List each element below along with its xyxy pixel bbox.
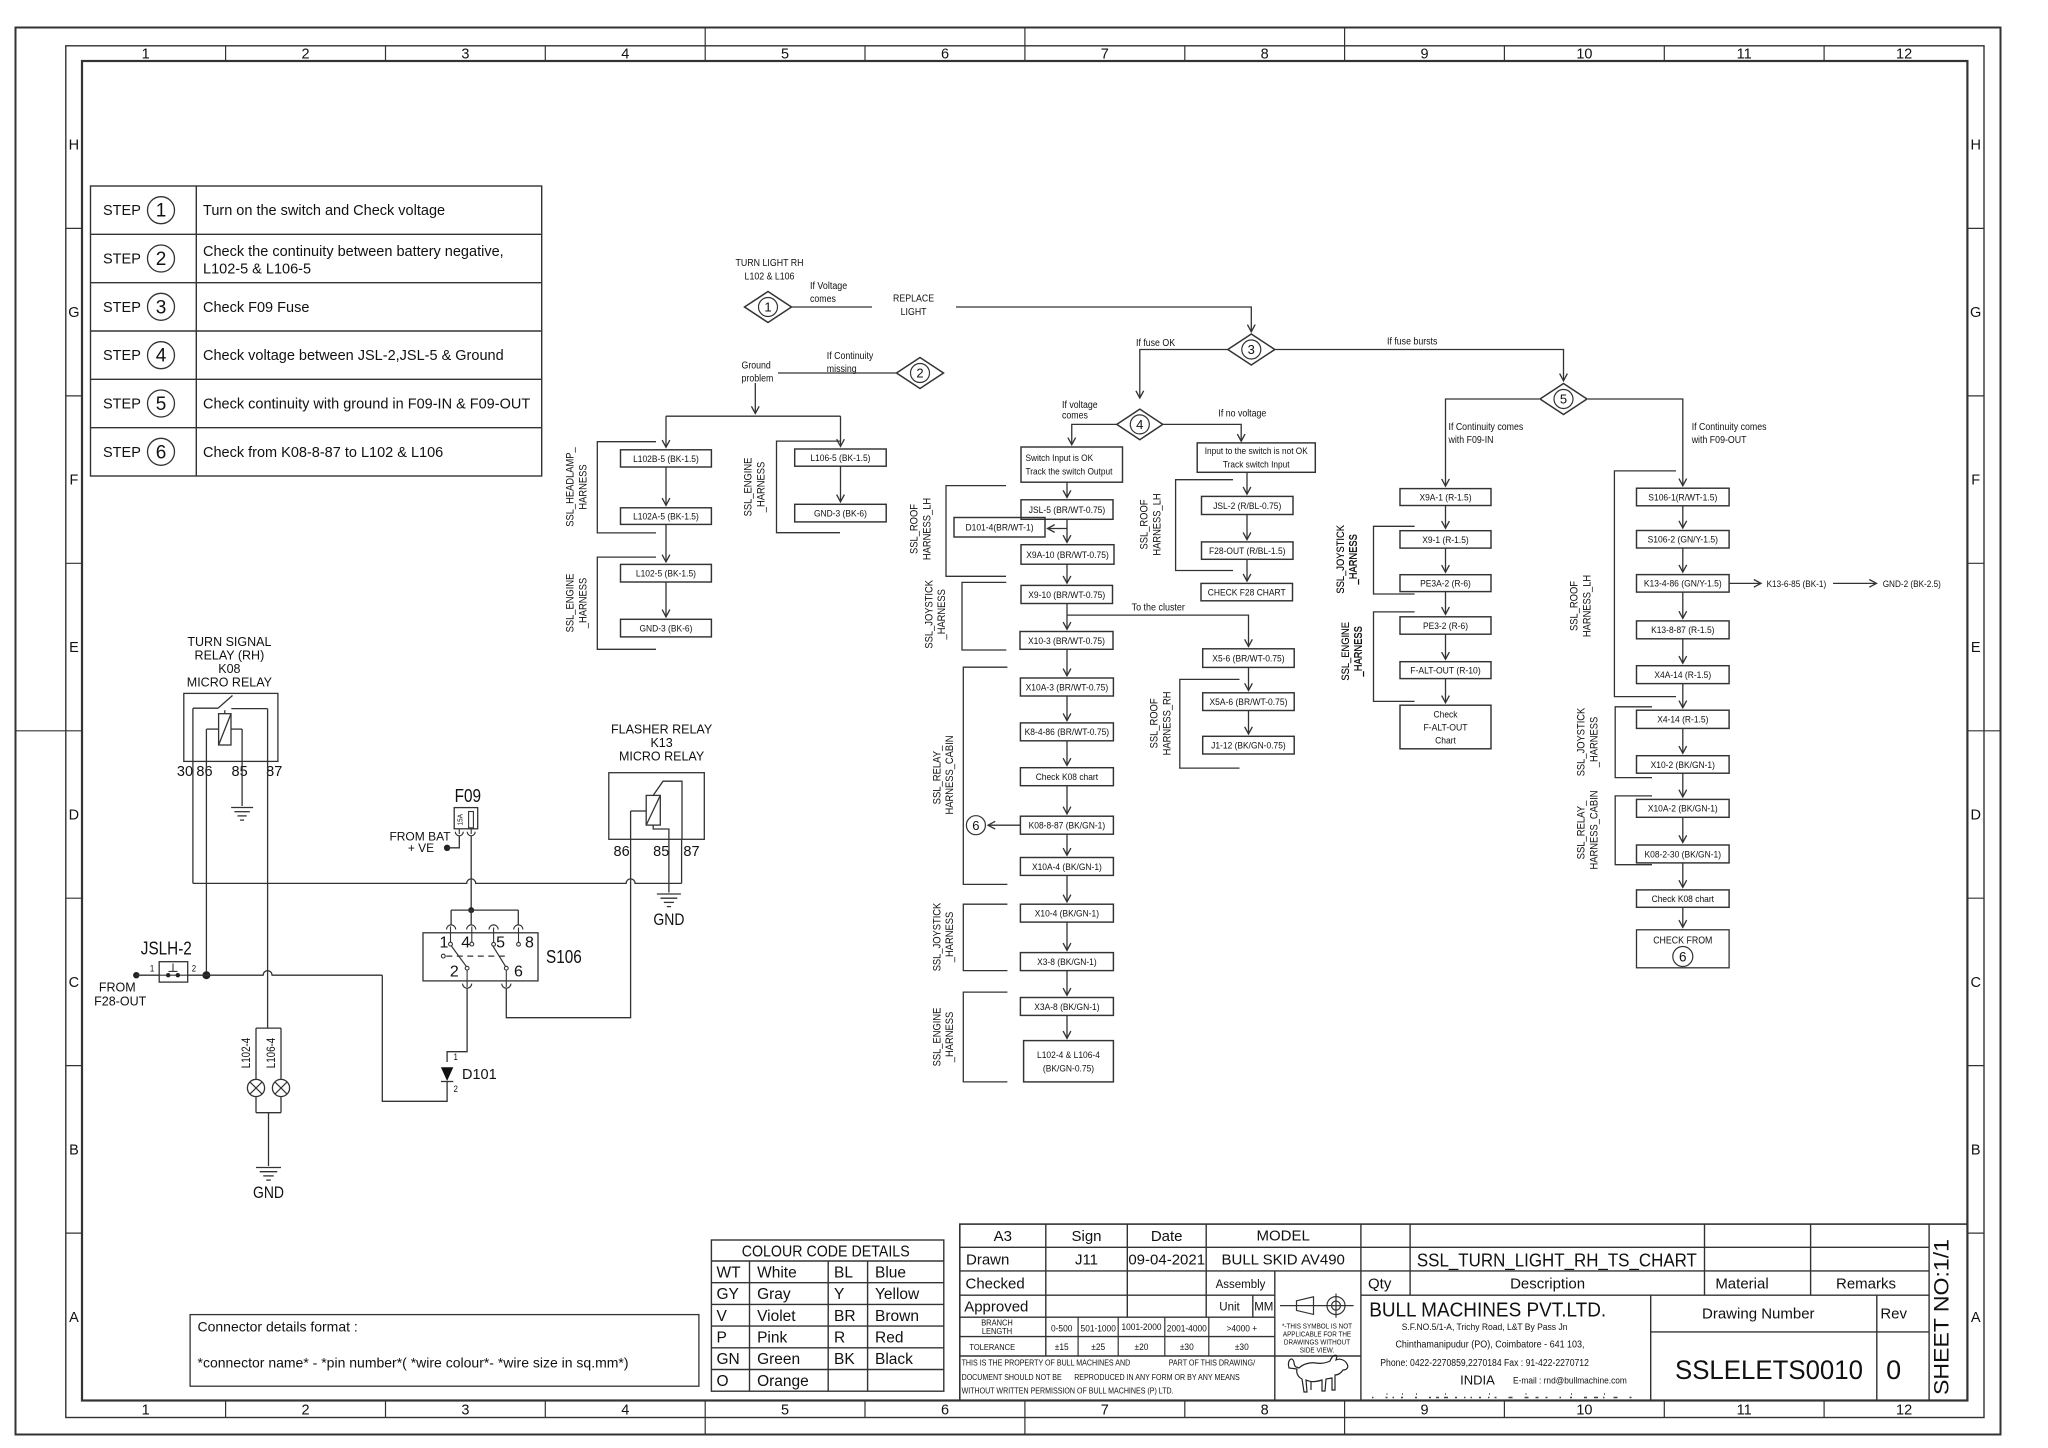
lamp L102-4 [247, 1079, 264, 1096]
node: TURN LIGHT RH label [736, 258, 804, 283]
svg-text:Check: Check [1434, 709, 1458, 720]
svg-text:D: D [69, 808, 79, 824]
flow box Switch Input is OK [1021, 447, 1123, 482]
relay K08 [184, 693, 278, 761]
wire: S106 pin2 to D101 [447, 988, 467, 1062]
svg-text:6: 6 [941, 1402, 949, 1418]
svg-text:If voltage: If voltage [1062, 400, 1098, 411]
property note text [962, 1359, 1256, 1396]
svg-text:2: 2 [156, 249, 167, 270]
svg-text:SSL_ROOF: SSL_ROOF [909, 504, 921, 554]
svg-text:Violet: Violet [757, 1308, 796, 1325]
border grid row letters and ticks [16, 138, 2001, 1326]
svg-text:X10A-4 (BK/GN-1): X10A-4 (BK/GN-1) [1032, 862, 1102, 873]
svg-text:STEP: STEP [103, 445, 141, 461]
svg-text:6: 6 [514, 964, 523, 981]
flow box L102B-5 [621, 450, 712, 467]
wire: diamond5 to S106-1 [1588, 399, 1683, 486]
svg-text:_HARNESS: _HARNESS [1588, 717, 1600, 768]
svg-text:87: 87 [683, 844, 699, 860]
svg-text:0: 0 [1886, 1355, 1901, 1385]
wire: To the cluster rail [1067, 615, 1249, 646]
svg-text:CHECK FROM: CHECK FROM [1653, 936, 1712, 947]
svg-text:4: 4 [621, 1402, 629, 1418]
svg-text:LENGTH: LENGTH [982, 1326, 1012, 1336]
S106 feed node [468, 907, 474, 913]
flow box CHECK FROM 6 [1637, 930, 1730, 968]
svg-text:A: A [1971, 1310, 1981, 1326]
svg-text:3: 3 [461, 1402, 469, 1418]
svg-text:TOLERANCE: TOLERANCE [969, 1342, 1015, 1352]
label: If Voltage comes [810, 281, 848, 305]
svg-text:2: 2 [450, 964, 459, 981]
svg-text:Chart: Chart [1435, 735, 1456, 746]
svg-text:SSL_ENGINE: SSL_ENGINE [565, 574, 577, 633]
wire: K08 pin85 to ground [241, 729, 243, 806]
S106 pin hooks top [447, 925, 523, 943]
svg-text:PE3-2 (R-6): PE3-2 (R-6) [1423, 621, 1468, 632]
svg-text:1: 1 [142, 1402, 150, 1418]
wire: K13-6-85 to GND-2 [1833, 582, 1877, 584]
svg-text:X10-3 (BR/WT-0.75): X10-3 (BR/WT-0.75) [1028, 636, 1105, 647]
lamp loop wires [256, 1028, 281, 1113]
svg-text:J1-12 (BK/GN-0.75): J1-12 (BK/GN-0.75) [1211, 741, 1286, 752]
wire: ground problem to diamond2 [778, 372, 896, 374]
svg-text:C: C [1970, 975, 1980, 991]
flow box L102-4 and L106-4 [1024, 1041, 1114, 1082]
svg-text:HARNESS_LH: HARNESS_LH [921, 498, 933, 560]
svg-text:Description: Description [1510, 1276, 1585, 1293]
wire: column B chain arrows [1682, 506, 1684, 928]
drawing number header [1702, 1305, 1908, 1322]
flow box Check K08 chart [1020, 768, 1113, 786]
svg-text:R: R [834, 1329, 845, 1346]
svg-text:JSL-2 (R/BL-0.75): JSL-2 (R/BL-0.75) [1213, 501, 1281, 512]
svg-text:X9-1 (R-1.5): X9-1 (R-1.5) [1422, 535, 1469, 546]
svg-text:SSL_JOYSTICK: SSL_JOYSTICK [1576, 707, 1588, 776]
svg-text:BULL MACHINES PVT.LTD.: BULL MACHINES PVT.LTD. [1369, 1300, 1606, 1322]
wire: S106 feed rail to pins 1 4 8 [451, 910, 518, 925]
wire: diamond1 to REPLACE LIGHT [792, 306, 873, 308]
lamp L106-4 [272, 1079, 289, 1096]
svg-text:F-ALT-OUT: F-ALT-OUT [1423, 722, 1467, 733]
svg-text:E: E [69, 640, 79, 656]
svg-text:FROM: FROM [99, 981, 136, 995]
svg-text:HARNESS_RH: HARNESS_RH [1161, 691, 1173, 755]
svg-text:+ VE: + VE [408, 841, 434, 855]
flow box K08-8-87 [1020, 816, 1113, 834]
title block row2 values [966, 1252, 1345, 1269]
flow box X9-10 [1021, 585, 1113, 603]
svg-text:501-1000: 501-1000 [1081, 1323, 1116, 1334]
svg-text:L102-5 & L106-5: L102-5 & L106-5 [203, 262, 311, 278]
svg-text:12: 12 [1896, 1402, 1912, 1418]
svg-text:X10A-3 (BR/WT-0.75): X10A-3 (BR/WT-0.75) [1026, 682, 1109, 693]
svg-text:Green: Green [757, 1351, 800, 1368]
svg-text:O: O [717, 1373, 729, 1390]
wire: diamond5 to X9A-1 [1446, 399, 1540, 486]
svg-text:SSL_JOYSTICK: SSL_JOYSTICK [931, 902, 943, 971]
bull logo [1288, 1355, 1347, 1392]
svg-text:G: G [1970, 305, 1981, 321]
decision diamond 2 (continuity) [897, 358, 944, 389]
relay K08 coil [206, 710, 242, 745]
svg-text:2: 2 [302, 1402, 310, 1418]
svg-text:X10A-2 (BK/GN-1): X10A-2 (BK/GN-1) [1648, 804, 1718, 815]
svg-text:Sign: Sign [1071, 1228, 1101, 1245]
svg-text:P: P [717, 1329, 727, 1346]
flow box X3A-8 [1020, 998, 1113, 1016]
svg-text:X3-8 (BK/GN-1): X3-8 (BK/GN-1) [1037, 957, 1097, 968]
svg-text:S106-1(R/WT-1.5): S106-1(R/WT-1.5) [1648, 492, 1717, 503]
svg-text:K8-4-86 (BR/WT-0.75): K8-4-86 (BR/WT-0.75) [1025, 727, 1110, 738]
node: FROM F28-OUT dot [133, 972, 139, 978]
title block row1 labels [994, 1227, 1310, 1245]
svg-text:GN: GN [717, 1351, 740, 1368]
svg-text:STEP: STEP [103, 252, 141, 268]
wire: split rail to L102B-5 and L106-5 [666, 416, 841, 447]
svg-text:_HARNESS: _HARNESS [577, 578, 589, 629]
ground (lamps) [256, 1168, 281, 1181]
ground (K13 pin 85) [657, 894, 681, 907]
node: junction K08-86 / JSLH-2 wire [202, 971, 210, 979]
svg-text:SSL_TURN_LIGHT_RH_TS_CHART: SSL_TURN_LIGHT_RH_TS_CHART [1417, 1249, 1697, 1271]
wire: JSLH-2 to lamps branch (with hop at K08-87) [188, 971, 383, 975]
SSL_ENGINE_HARNESS (L102-5) harness bracket [565, 557, 657, 649]
svg-text:Yellow: Yellow [875, 1286, 920, 1303]
flow box PE3A-2 [1400, 575, 1491, 592]
svg-text:JSLH-2: JSLH-2 [141, 939, 192, 959]
title block row3 labels [966, 1276, 1897, 1293]
projection symbol [1280, 1294, 1354, 1318]
svg-text:1: 1 [764, 300, 771, 315]
svg-text:X9-10 (BR/WT-0.75): X9-10 (BR/WT-0.75) [1028, 590, 1105, 601]
svg-text:A: A [69, 1310, 79, 1326]
flow box X4A-14 [1637, 666, 1730, 684]
svg-text:HARNESS_LH: HARNESS_LH [1581, 575, 1593, 637]
svg-text:2: 2 [192, 964, 196, 974]
svg-text:4: 4 [461, 934, 470, 951]
wire: middle chain arrows [1066, 482, 1068, 1038]
svg-text:F28-OUT (R/BL-1.5): F28-OUT (R/BL-1.5) [1209, 546, 1286, 557]
svg-text:V: V [717, 1308, 728, 1325]
svg-text:GY: GY [717, 1286, 739, 1303]
svg-text:1: 1 [440, 934, 449, 951]
svg-text:Check continuity with ground i: Check continuity with ground in F09-IN &… [203, 397, 530, 413]
flow box PE3-2 [1400, 617, 1491, 634]
svg-text:8: 8 [525, 934, 534, 951]
svg-text:±20: ±20 [1135, 1342, 1149, 1353]
svg-text:B: B [69, 1142, 79, 1158]
svg-text:BULL SKID AV490: BULL SKID AV490 [1221, 1252, 1344, 1269]
svg-text:1001-2000: 1001-2000 [1122, 1322, 1162, 1333]
svg-text:Check voltage between JSL-2,JS: Check voltage between JSL-2,JSL-5 & Grou… [203, 348, 504, 364]
svg-text:L102A-5 (BK-1.5): L102A-5 (BK-1.5) [633, 512, 699, 523]
svg-text:D101-4(BR/WT-1): D101-4(BR/WT-1) [965, 523, 1033, 534]
svg-text:Check K08 chart: Check K08 chart [1036, 772, 1099, 783]
svg-text:SSL_JOYSTICK: SSL_JOYSTICK [923, 579, 935, 648]
svg-text:2: 2 [916, 366, 923, 381]
svg-text:HARNESS_LH: HARNESS_LH [1151, 493, 1163, 555]
flow box L102A-5 [621, 508, 712, 525]
SSL_HEADLAMP_HARNESS harness bracket [565, 442, 657, 533]
branch length tolerance table [969, 1318, 1257, 1353]
label: If Continuity comes with F09-OUT [1691, 422, 1767, 446]
svg-text:SSL_ENGINE: SSL_ENGINE [1340, 622, 1352, 681]
svg-text:White: White [757, 1264, 797, 1281]
svg-text:3: 3 [156, 297, 167, 318]
svg-text:INDIA: INDIA [1460, 1372, 1495, 1387]
svg-text:MICRO RELAY: MICRO RELAY [187, 676, 273, 690]
svg-text:30: 30 [177, 764, 193, 780]
svg-text:SSL_RELAY_: SSL_RELAY_ [931, 745, 943, 804]
wire: lamps to ground [268, 1113, 270, 1166]
flow box F28-OUT [1202, 542, 1294, 559]
svg-text:WITHOUT WRITTEN PERMISSION OF: WITHOUT WRITTEN PERMISSION OF BULL MACHI… [962, 1386, 1174, 1395]
svg-text:BL: BL [834, 1264, 853, 1281]
svg-text:Red: Red [875, 1329, 903, 1346]
svg-text:Ground: Ground [742, 361, 771, 372]
svg-text:L102-5 (BK-1.5): L102-5 (BK-1.5) [636, 569, 696, 580]
svg-text:REPLACE: REPLACE [893, 294, 934, 305]
relay K13 [609, 773, 705, 840]
svg-text:85: 85 [232, 764, 248, 780]
svg-text:H: H [69, 138, 79, 154]
svg-text:X10-2 (BK/GN-1): X10-2 (BK/GN-1) [1651, 760, 1715, 771]
svg-text:Input to the switch is not OK: Input to the switch is not OK [1205, 445, 1309, 456]
svg-text:8: 8 [1261, 1402, 1269, 1418]
svg-text:5: 5 [156, 394, 167, 415]
svg-text:G: G [68, 305, 79, 321]
svg-text:F09: F09 [455, 786, 481, 806]
svg-text:Drawing Number: Drawing Number [1702, 1305, 1815, 1322]
wire: diamond4 to not OK box [1163, 424, 1241, 441]
svg-text:Unit: Unit [1219, 1302, 1240, 1314]
SSL_JOYSTICK_HARNESS (mid1) harness bracket [923, 579, 1006, 650]
label: If Continuity comes with F09-IN [1448, 422, 1524, 446]
svg-text:Check the continuity between b: Check the continuity between battery neg… [203, 244, 504, 260]
svg-text:Approved: Approved [964, 1299, 1028, 1316]
svg-text:If Continuity comes: If Continuity comes [1449, 422, 1524, 433]
svg-text:SSLELETS0010: SSLELETS0010 [1675, 1355, 1863, 1385]
wire: REPLACE LIGHT to diamond3 [956, 307, 1251, 332]
flow box J1-12 [1203, 736, 1295, 754]
flow box S106-2 [1637, 531, 1730, 549]
wire: K08 pin30 down and right to K13 pin87 [193, 708, 682, 883]
flow box K13-4-86 [1637, 575, 1730, 593]
svg-text:X9A-1 (R-1.5): X9A-1 (R-1.5) [1419, 492, 1471, 503]
svg-text:L102-4 & L106-4: L102-4 & L106-4 [1037, 1050, 1100, 1061]
svg-text:PE3A-2 (R-6): PE3A-2 (R-6) [1420, 579, 1471, 590]
wire: FROM BAT to fuse [447, 836, 459, 848]
svg-text:±30: ±30 [1235, 1342, 1249, 1353]
svg-text:E-mail : rnd@bullmachine.com: E-mail : rnd@bullmachine.com [1513, 1375, 1627, 1386]
SSL_ROOF HARNESS_LH (mid) harness bracket [909, 486, 1007, 577]
svg-text:1: 1 [156, 201, 167, 222]
svg-text:_HARNESS: _HARNESS [1348, 534, 1360, 585]
flow box X5-6 [1203, 649, 1295, 668]
svg-text:Rev: Rev [1880, 1305, 1907, 1322]
svg-text:15A: 15A [456, 814, 465, 825]
svg-text:Check from K08-8-87 to L102 &: Check from K08-8-87 to L102 & L106 [203, 445, 443, 461]
flow box K8-4-86 [1020, 723, 1113, 741]
label: SSL_JOYSTICK HARNESS right of F28 [1335, 524, 1360, 593]
svg-text:E: E [1971, 640, 1981, 656]
svg-text:If Voltage: If Voltage [810, 281, 848, 292]
flow box K13-8-87 [1637, 621, 1730, 639]
flow box X9A-10 [1021, 545, 1114, 565]
svg-text:_HARNESS: _HARNESS [1353, 626, 1365, 677]
svg-text:±15: ±15 [1055, 1342, 1069, 1353]
flow box X10-4 [1020, 904, 1113, 922]
wire: K13-4-86 to K13-6-85 [1729, 582, 1761, 584]
flow box X10A-2 [1637, 799, 1730, 817]
svg-text:09-04-2021: 09-04-2021 [1128, 1252, 1205, 1269]
wire: K08 pin87 down to lamps [267, 709, 269, 1029]
svg-text:If Continuity: If Continuity [827, 351, 874, 362]
switch S106 [423, 933, 582, 981]
svg-text:L102 & L106: L102 & L106 [745, 272, 795, 283]
svg-text:86: 86 [196, 764, 212, 780]
flow box X10A-3 [1020, 678, 1113, 696]
svg-text:GND-2 (BK-2.5): GND-2 (BK-2.5) [1883, 579, 1941, 589]
flow box L106-5 [795, 449, 887, 466]
SSL_ENGINE_HARNESS (mid) harness bracket [931, 992, 1007, 1082]
svg-text:S106-2 (GN/Y-1.5): S106-2 (GN/Y-1.5) [1648, 535, 1718, 546]
svg-text:12: 12 [1896, 46, 1912, 62]
relay K08 contact arm [193, 696, 268, 709]
company block [1369, 1300, 1627, 1388]
svg-text:WT: WT [717, 1264, 742, 1281]
svg-text:CHECK F28 CHART: CHECK F28 CHART [1208, 588, 1286, 599]
svg-text:L102B-5 (BK-1.5): L102B-5 (BK-1.5) [633, 454, 699, 465]
svg-text:L102-4: L102-4 [241, 1037, 253, 1068]
svg-text:SSL_ROOF: SSL_ROOF [1139, 499, 1151, 549]
svg-text:85: 85 [653, 844, 669, 860]
SSL_JOYSTICK_HARNESS (colA) harness bracket [1335, 524, 1415, 594]
svg-text:TURN SIGNAL: TURN SIGNAL [187, 635, 271, 649]
svg-text:K13-6-85 (BK-1): K13-6-85 (BK-1) [1767, 579, 1827, 589]
svg-text:Track switch Input: Track switch Input [1223, 459, 1290, 470]
label: FROM F28-OUT [94, 981, 146, 1009]
SSL_ROOF HARNESS_LH (JSL-2) harness bracket [1139, 480, 1234, 571]
svg-text:C: C [69, 975, 79, 991]
svg-text:F-ALT-OUT (R-10): F-ALT-OUT (R-10) [1410, 666, 1480, 677]
flow box X10A-4 [1020, 858, 1113, 876]
svg-text:0-500: 0-500 [1051, 1323, 1072, 1334]
svg-text:>4000 +: >4000 + [1226, 1323, 1257, 1334]
svg-text:F: F [1971, 473, 1980, 489]
svg-text:with F09-OUT: with F09-OUT [1691, 435, 1747, 446]
wire: ground problem down to split rail [754, 383, 756, 414]
wire: arrow to D101-4 box [1048, 528, 1068, 530]
svg-text:Pink: Pink [757, 1329, 787, 1346]
label: FROM BAT +VE [389, 829, 451, 855]
svg-text:2001-4000: 2001-4000 [1167, 1323, 1207, 1334]
svg-text:K13-8-87 (R-1.5): K13-8-87 (R-1.5) [1651, 625, 1714, 636]
svg-text:6: 6 [156, 442, 167, 463]
svg-text:87: 87 [266, 764, 282, 780]
svg-text:X3A-8 (BK/GN-1): X3A-8 (BK/GN-1) [1034, 1002, 1099, 1013]
node: FROM BAT dot [444, 845, 450, 851]
flow box F-ALT-OUT [1400, 662, 1491, 679]
svg-text:Check F09 Fuse: Check F09 Fuse [203, 300, 309, 316]
svg-text:1: 1 [454, 1052, 458, 1062]
svg-text:7: 7 [1101, 46, 1109, 62]
svg-text:X5-6 (BR/WT-0.75): X5-6 (BR/WT-0.75) [1212, 654, 1284, 665]
svg-text:SSL_ENGINE: SSL_ENGINE [743, 458, 755, 517]
svg-text:Drawn: Drawn [966, 1252, 1009, 1269]
flow box D101-4 [954, 518, 1045, 538]
svg-text:4: 4 [1136, 417, 1143, 432]
svg-text:_HARNESS: _HARNESS [936, 589, 948, 640]
svg-text:MICRO RELAY: MICRO RELAY [619, 750, 705, 764]
flow box Input to switch not OK [1197, 443, 1315, 472]
relay K08 title [187, 635, 273, 690]
wire: L102B-5 chain arrows [666, 466, 841, 617]
svg-text:8: 8 [1261, 46, 1269, 62]
svg-text:Orange: Orange [757, 1373, 809, 1390]
wire: diamond4 to switch OK box [1072, 424, 1117, 444]
svg-text:F28-OUT: F28-OUT [94, 995, 146, 1009]
svg-text:STEP: STEP [103, 348, 141, 364]
svg-text:X10-4 (BK/GN-1): X10-4 (BK/GN-1) [1035, 909, 1099, 920]
svg-text:Gray: Gray [757, 1286, 791, 1303]
svg-text:(BK/GN-0.75): (BK/GN-0.75) [1043, 1063, 1094, 1074]
svg-text:SSL_ROOF: SSL_ROOF [1569, 581, 1581, 631]
svg-text:REPRODUCED IN ANY FORM OR BY A: REPRODUCED IN ANY FORM OR BY ANY MEANS [1074, 1373, 1240, 1382]
svg-text:To the cluster: To the cluster [1132, 603, 1186, 614]
svg-text:STEP: STEP [103, 203, 141, 219]
step procedure table [91, 186, 542, 476]
svg-text:9: 9 [1420, 1402, 1428, 1418]
connector JSLH-2 [159, 962, 188, 982]
colour code details table [711, 1240, 943, 1391]
svg-text:If Continuity comes: If Continuity comes [1692, 422, 1767, 433]
wire: F28-OUT lead to JSLH-2 [136, 974, 159, 976]
garbled small print [1372, 1394, 1632, 1398]
flow box JSL-2 [1202, 496, 1294, 514]
svg-text:with F09-IN: with F09-IN [1448, 435, 1494, 446]
svg-text:B: B [1971, 1142, 1981, 1158]
svg-text:Connector details format :: Connector details format : [198, 1319, 358, 1335]
svg-text:5: 5 [496, 934, 505, 951]
svg-text:A3: A3 [994, 1228, 1012, 1245]
svg-text:2: 2 [302, 46, 310, 62]
svg-text:D101: D101 [462, 1067, 497, 1083]
svg-text:11: 11 [1737, 46, 1752, 62]
wire: K08 pin86 down to JSLH-2 node [205, 729, 207, 975]
svg-text:GND: GND [653, 910, 684, 929]
flow box Check K08 chart (B) [1637, 890, 1730, 907]
svg-text:STEP: STEP [103, 300, 141, 316]
svg-text:K08-2-30 (BK/GN-1): K08-2-30 (BK/GN-1) [1645, 849, 1722, 860]
wire: not-OK chain arrows [1246, 472, 1248, 581]
diode D101 [441, 1067, 497, 1083]
svg-text:5: 5 [1560, 392, 1567, 407]
svg-text:If fuse bursts: If fuse bursts [1387, 337, 1437, 348]
SSL_ROOF HARNESS_RH harness bracket [1149, 679, 1240, 768]
svg-text:F: F [69, 473, 78, 489]
svg-text:*connector name* - *pin numbe: *connector name* - *pin number*( *wire c… [198, 1355, 629, 1371]
node: REPLACE LIGHT [893, 294, 934, 319]
flow box X10-2 [1637, 756, 1730, 774]
svg-text:1: 1 [142, 46, 150, 62]
svg-text:S106: S106 [546, 947, 582, 967]
wire: diamond3 to diamond4 [1140, 350, 1228, 399]
SSL_ENGINE_HARNESS (L106-5) harness bracket [743, 441, 840, 533]
flow box JSL-5 [1021, 500, 1113, 520]
